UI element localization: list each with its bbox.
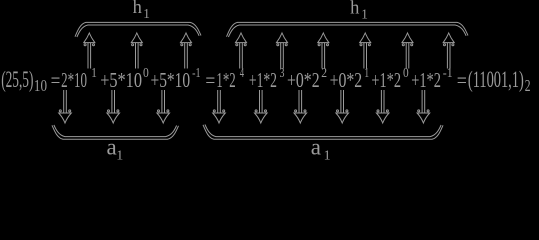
- svg-text:1: 1: [324, 149, 331, 164]
- svg-text:(11001,1): (11001,1): [468, 67, 524, 93]
- svg-text:+1*2: +1*2: [411, 70, 441, 92]
- svg-text:-1: -1: [192, 66, 201, 81]
- svg-text:+5*10: +5*10: [151, 70, 191, 92]
- svg-text:+1*2: +1*2: [371, 70, 401, 92]
- svg-text:1: 1: [91, 66, 97, 81]
- svg-text:h: h: [133, 0, 142, 18]
- svg-text:+1*2: +1*2: [249, 70, 277, 92]
- svg-text:0: 0: [143, 66, 149, 81]
- svg-text:1: 1: [143, 6, 150, 21]
- svg-text:=: =: [205, 70, 215, 92]
- svg-text:a: a: [311, 134, 321, 159]
- svg-text:1*2: 1*2: [216, 70, 235, 92]
- svg-text:2: 2: [525, 76, 531, 95]
- svg-text:=: =: [457, 70, 467, 92]
- svg-text:10: 10: [34, 76, 47, 95]
- svg-text:+0*2: +0*2: [287, 70, 320, 92]
- svg-text:1: 1: [116, 149, 123, 164]
- svg-text:2*10: 2*10: [61, 70, 87, 92]
- svg-text:(25,5): (25,5): [1, 67, 33, 93]
- svg-text:+5*10: +5*10: [100, 70, 142, 92]
- svg-text:+0*2: +0*2: [330, 70, 363, 92]
- svg-text:=: =: [51, 70, 61, 92]
- svg-text:a: a: [107, 134, 117, 159]
- svg-text:1: 1: [361, 6, 368, 21]
- svg-text:h: h: [350, 0, 359, 18]
